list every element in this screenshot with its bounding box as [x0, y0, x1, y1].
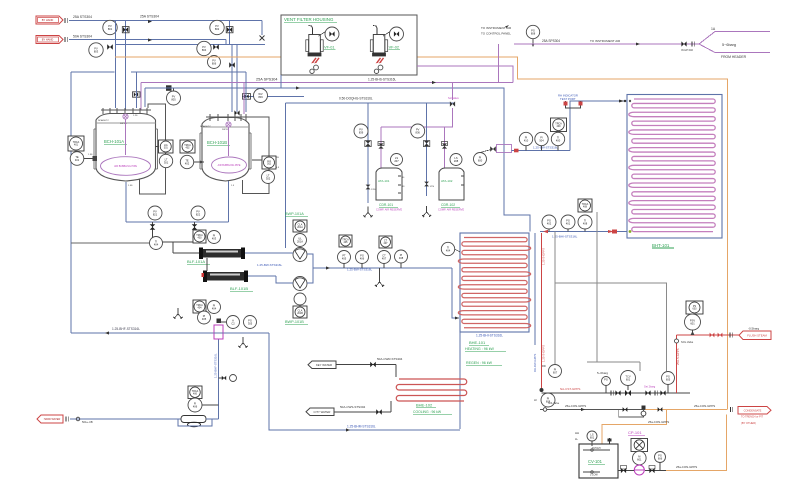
condensate header [540, 409, 645, 411]
svg-text:BLF-101B: BLF-101B [230, 286, 248, 291]
pump BWP-101B [293, 277, 307, 291]
column x115.5 to vessel A [115, 21, 117, 109]
svg-text:601: 601 [637, 458, 642, 462]
instrument TE402 [180, 155, 193, 168]
svg-text:TO CONTROL PANEL: TO CONTROL PANEL [481, 32, 511, 36]
instrument PI600 [474, 153, 487, 166]
svg-text:404: 404 [446, 249, 451, 253]
pump suction lines [245, 252, 293, 254]
svg-text:1S: 1S [402, 186, 405, 188]
svg-text:801: 801 [108, 27, 113, 31]
vessel drains blue [125, 182, 127, 222]
riser x570 to BHT inlet [570, 101, 627, 151]
BHT outlet line to BHE header [540, 231, 627, 233]
svg-text:NOAGUTC: NOAGUTC [200, 125, 211, 128]
svg-text:0.50-DOQHG-STS316L: 0.50-DOQHG-STS316L [339, 97, 373, 101]
drum drains Y [367, 207, 369, 213]
svg-text:AIR BUBBLING PIPE: AIR BUBBLING PIPE [218, 164, 241, 167]
branch to CV tank [602, 410, 667, 445]
vent filter VF-02 [373, 35, 385, 56]
BHE header instruments [578, 199, 592, 212]
svg-text:401: 401 [74, 144, 79, 147]
svg-text:601: 601 [626, 378, 631, 382]
instrument PV804 [197, 41, 211, 55]
instrument PV836 [411, 124, 425, 138]
loop header y333 [71, 332, 214, 334]
svg-text:CDR-101: CDR-101 [379, 203, 393, 207]
svg-text:LL: LL [575, 437, 579, 441]
svg-text:402: 402 [186, 147, 191, 150]
vessel BCH-101B [202, 118, 249, 182]
instrument PI607 [549, 365, 562, 378]
svg-text:405: 405 [342, 257, 347, 261]
instrument PG808 [526, 25, 539, 38]
svg-text:KEY WATER: KEY WATER [316, 363, 332, 367]
svg-text:Set 2barg: Set 2barg [644, 385, 656, 389]
BHE-101 inlet TI [441, 242, 454, 255]
svg-text:208: 208 [454, 159, 459, 163]
svg-text:ATA-101: ATA-101 [378, 179, 390, 183]
svg-text:410: 410 [524, 139, 529, 143]
svg-text:BHE-102: BHE-102 [416, 403, 433, 408]
condensate bypass loop [619, 410, 644, 418]
svg-text:1.5S: 1.5S [128, 185, 133, 187]
pump discharge orange [666, 415, 727, 471]
svg-text:VENT FILTER HOUSING: VENT FILTER HOUSING [284, 17, 334, 22]
instrument TRCA403 square [193, 230, 206, 243]
svg-text:1/2S: 1/2S [430, 186, 435, 188]
svg-text:5~6barg: 5~6barg [597, 371, 608, 375]
svg-text:601: 601 [590, 436, 595, 440]
svg-text:201A: 201A [297, 226, 303, 229]
steam line red x541.5 [541, 233, 543, 388]
svg-text:SOL.Valve: SOL.Valve [681, 340, 694, 344]
instrument FI406 [188, 398, 202, 412]
svg-text:CDR-102: CDR-102 [441, 203, 455, 207]
instrument PG406 [356, 251, 369, 264]
vent Y at y333 [242, 337, 244, 343]
instrument TRCA401 square [68, 136, 84, 151]
svg-text:ATA-102: ATA-102 [441, 179, 453, 183]
PRV station components [610, 391, 612, 396]
instrument PI403 [208, 231, 221, 244]
svg-text:PG: PG [604, 377, 608, 381]
svg-text:25A SPS304: 25A SPS304 [542, 39, 560, 43]
pump CP-101 motor [633, 451, 647, 465]
svg-text:1/2S: 1/2S [371, 189, 376, 191]
filter BLF-101B [206, 272, 244, 281]
svg-text:25A SPS304: 25A SPS304 [256, 78, 278, 82]
instrument PG606 [655, 452, 666, 463]
wire blue header y20.5 [69, 20, 262, 22]
wire drops vessel B [231, 45, 233, 113]
svg-text:1.25-BHI-STS316L: 1.25-BHI-STS316L [476, 334, 503, 338]
purple drop vessel A [140, 83, 142, 111]
BHE-101 downcomer to city loop [459, 332, 461, 429]
svg-text:10: 10 [402, 177, 405, 179]
svg-text:SOL.Valve: SOL.Valve [548, 402, 560, 405]
instrument PV803 [89, 43, 103, 57]
svg-text:VF-02: VF-02 [389, 46, 399, 50]
svg-text:COOLING : 96 kW: COOLING : 96 kW [413, 410, 442, 414]
svg-text:1.25-BHF-STS316L: 1.25-BHF-STS316L [214, 353, 218, 378]
svg-text:IN HP 040: IN HP 040 [681, 48, 693, 52]
svg-text:1.5: 1.5 [231, 185, 235, 187]
valve column x125.6 [125, 21, 127, 111]
vent box drain drop [280, 75, 282, 88]
svg-text:839: 839 [359, 131, 364, 135]
static mixer [181, 416, 206, 423]
flash steam line [677, 334, 740, 336]
svg-text:1.25-S-GPPS: 1.25-S-GPPS [542, 345, 546, 362]
svg-text:201A: 201A [297, 240, 303, 244]
svg-text:1.25-BW-STS316L: 1.25-BW-STS316L [347, 268, 372, 272]
svg-text:406: 406 [193, 405, 198, 409]
svg-text:COMP. AIR RESERVE: COMP. AIR RESERVE [376, 208, 402, 212]
instrument LT302 [262, 171, 275, 184]
svg-text:408: 408 [583, 206, 588, 209]
gray line from BHE to PRV station [554, 232, 556, 365]
line y150.5 to BHT riser [512, 150, 571, 152]
svg-text:1.2S: 1.2S [133, 115, 138, 117]
instrument LT301 [159, 154, 172, 167]
svg-text:BY HAND: BY HAND [42, 38, 54, 42]
svg-text:L-LOW: L-LOW [590, 474, 598, 477]
svg-text:305: 305 [248, 322, 253, 326]
svg-text:(BY OTHER): (BY OTHER) [741, 421, 756, 425]
svg-text:NA-CST-GPPS: NA-CST-GPPS [560, 387, 580, 391]
break symbol [64, 18, 66, 23]
instrument PI504 [535, 132, 548, 145]
svg-text:50A-CWR-STS304: 50A-CWR-STS304 [377, 357, 403, 361]
svg-text:1.25-BHI-STS316L: 1.25-BHI-STS316L [552, 235, 578, 239]
svg-text:201B: 201B [297, 312, 303, 315]
svg-text:302: 302 [266, 177, 271, 181]
svg-text:504: 504 [539, 139, 544, 143]
drop x246 vessel B right [245, 72, 247, 112]
instrument TRCA400 square [551, 118, 567, 132]
svg-text:600: 600 [478, 159, 483, 163]
purple header drop to drums [452, 83, 454, 101]
city loop bottom return [218, 339, 220, 419]
svg-text:25a-CON-GPPS: 25a-CON-GPPS [565, 404, 586, 408]
blue down x504 with purple valve [497, 145, 512, 153]
svg-text:COMP. AIR RESERVE: COMP. AIR RESERVE [438, 208, 464, 212]
pump BWP-101A [293, 248, 307, 262]
svg-text:-0.5barg: -0.5barg [748, 327, 760, 331]
svg-text:BCH-101A: BCH-101A [104, 139, 124, 144]
right side collector x535 [534, 233, 536, 345]
svg-text:821: 821 [153, 213, 158, 217]
heat exchanger BHE-101 shell [460, 233, 529, 332]
svg-text:301: 301 [164, 147, 169, 150]
instrument CT407 [378, 251, 391, 264]
instrument PV822 [191, 206, 205, 220]
svg-text:26P1S: 26P1S [120, 123, 127, 125]
pump A instruments [293, 220, 307, 232]
purple dip tube A [123, 114, 128, 119]
svg-text:601: 601 [690, 322, 695, 326]
svg-text:TEST PORT: TEST PORT [560, 97, 576, 101]
vent Y on water line [379, 268, 381, 276]
svg-text:806: 806 [212, 62, 217, 66]
svg-text:BHE-101: BHE-101 [469, 340, 486, 345]
instrument LS207 [391, 154, 403, 166]
svg-text:1.5: 1.5 [276, 167, 280, 169]
instrument LS208 [450, 154, 462, 166]
control valve TCV [621, 371, 636, 386]
instrument TI400 [551, 132, 564, 145]
blue header y103 DOQHG [285, 102, 455, 104]
valve on drop x237 [234, 110, 239, 115]
vent line vessel A with PV805 [133, 92, 141, 97]
svg-text:25a-CON-GPPS: 25a-CON-GPPS [694, 404, 715, 408]
filter BLF-101A [202, 249, 242, 258]
svg-text:25a-CON-GPPS: 25a-CON-GPPS [648, 420, 669, 424]
svg-text:VF-01: VF-01 [324, 46, 334, 50]
instrument PI405 cluster at junction [198, 311, 211, 324]
svg-text:607: 607 [553, 371, 558, 375]
vent filter VF-01 [309, 35, 321, 56]
svg-text:HI: HI [534, 398, 537, 402]
instrument PV839 [354, 124, 368, 138]
city water line [334, 411, 391, 413]
svg-text:50A-CWS-STS304: 50A-CWS-STS304 [340, 405, 366, 409]
vent line vessel B with WV809 [242, 95, 304, 97]
svg-text:26P1S: 26P1S [222, 129, 229, 131]
instrument PV801 [103, 20, 117, 34]
vent Y below filters [177, 308, 179, 314]
svg-text:1.25-BW-STS316L: 1.25-BW-STS316L [257, 263, 282, 267]
svg-text:406: 406 [360, 257, 365, 261]
svg-text:401: 401 [75, 158, 80, 162]
svg-text:822: 822 [196, 213, 201, 217]
blue riser x145 vessel vent [144, 88, 146, 107]
svg-text:808: 808 [531, 32, 536, 36]
hard water line [65, 417, 67, 422]
safety valve PSV [686, 301, 703, 314]
sample valve [219, 377, 227, 379]
BHT-101 coil [629, 99, 715, 232]
svg-text:803: 803 [94, 50, 99, 54]
instrument PI404 [208, 301, 221, 314]
svg-text:50A+-UB: 50A+-UB [82, 420, 93, 424]
svg-text:404: 404 [154, 243, 159, 247]
instrument TRCA404 square below [193, 300, 206, 313]
svg-text:25A STS304: 25A STS304 [140, 15, 159, 19]
svg-text:804: 804 [202, 48, 207, 52]
svg-text:HARD WATER: HARD WATER [44, 418, 61, 421]
instrument TE401 [70, 152, 84, 166]
svg-text:BWP-101A: BWP-101A [285, 212, 304, 216]
svg-text:403: 403 [212, 237, 217, 241]
svg-text:BLF-101A: BLF-101A [187, 259, 205, 264]
instrument air drop x498.5 [498, 44, 500, 83]
svg-text:1.25-BHM-STS316L: 1.25-BHM-STS316L [347, 425, 376, 429]
drain legs with valves [152, 222, 154, 242]
svg-text:302: 302 [267, 163, 272, 166]
from header flag 1A [699, 32, 715, 53]
purple air header y82.5 [141, 82, 513, 84]
flag FLUSH STEAM [739, 331, 771, 340]
svg-text:TO INSTRUMENT AIR: TO INSTRUMENT AIR [590, 39, 621, 43]
wire drop to closed end x262 [261, 21, 263, 36]
pipe flag inlet 50A [36, 36, 63, 44]
vessel A top nozzles [102, 108, 104, 114]
svg-text:TO TRENCH or PIT: TO TRENCH or PIT [741, 416, 763, 419]
svg-text:603: 603 [693, 308, 698, 311]
svg-text:C2: C2 [231, 322, 235, 326]
purple riser from vent box [417, 66, 513, 83]
svg-text:605: 605 [666, 378, 671, 382]
svg-text:408: 408 [583, 222, 588, 226]
svg-text:836: 836 [416, 131, 421, 135]
svg-text:401: 401 [566, 222, 571, 226]
svg-text:404: 404 [212, 307, 217, 311]
blue line y88 [145, 88, 530, 232]
svg-text:404: 404 [198, 307, 203, 310]
svg-text:1.25-BHS-STS316L: 1.25-BHS-STS316L [368, 78, 396, 82]
vessel A side loop black [140, 104, 166, 194]
instrument PV806 [208, 56, 221, 69]
svg-text:2B: 2B [276, 157, 279, 159]
filter interconnect [206, 258, 208, 271]
svg-text:606: 606 [658, 457, 663, 461]
svg-text:25A STS304: 25A STS304 [73, 15, 92, 19]
long vertical x285 [284, 103, 286, 248]
heat exchanger BHE-102 coil [396, 379, 467, 401]
svg-text:RD: RD [542, 364, 546, 368]
svg-text:BCH-101B: BCH-101B [207, 140, 227, 145]
svg-text:402: 402 [547, 222, 552, 226]
pipe flag inlet 25A top-left [36, 16, 63, 24]
flag KEY WATER [308, 361, 336, 369]
svg-text:407: 407 [384, 242, 389, 245]
svg-text:AIR BUBBLING PIPE: AIR BUBBLING PIPE [114, 165, 137, 168]
instrument LIA301 square [159, 140, 174, 153]
instrument CT407 square [379, 236, 392, 248]
instrument TRCA402 square [180, 140, 195, 153]
svg-text:25A-S-GPPS: 25A-S-GPPS [676, 348, 680, 365]
pump CP-101 motor fan [631, 439, 648, 452]
svg-text:HEATING : 96 kW: HEATING : 96 kW [465, 347, 494, 351]
svg-text:CV-101: CV-101 [588, 459, 603, 464]
key water line [336, 364, 396, 366]
svg-text:403: 403 [198, 237, 203, 240]
pump CP-101 [634, 465, 644, 475]
svg-text:FROM HEADER: FROM HEADER [721, 55, 747, 59]
wire blue header y39.5 [69, 39, 226, 41]
svg-text:CP-101: CP-101 [628, 430, 642, 435]
valve riser x229.5 [229, 21, 231, 45]
pump B instruments [294, 293, 306, 305]
BHE-101 coil [458, 238, 530, 328]
instrument LIA302 square [262, 156, 276, 169]
tank top stub valve [609, 438, 611, 444]
svg-text:405: 405 [202, 317, 207, 321]
svg-text:BY HAND: BY HAND [42, 18, 54, 22]
purple drops to drums [380, 127, 382, 168]
steam trap on red line [540, 388, 544, 392]
svg-text:1.25-S-GPPS: 1.25-S-GPPS [542, 248, 546, 265]
svg-text:Sol.Valve: Sol.Valve [448, 96, 459, 100]
instrument PI410 [519, 132, 532, 145]
left blue loop [71, 71, 115, 73]
drum CDR-101A [376, 168, 402, 200]
break symbol [64, 37, 66, 42]
instrument PG605 [662, 372, 675, 385]
drum CDR-101B [439, 168, 464, 200]
wire branch header y44.5 [116, 44, 266, 46]
tank CV-101 [579, 444, 618, 478]
pump suction discharge [618, 470, 634, 472]
svg-text:50A STS304: 50A STS304 [73, 35, 92, 39]
svg-text:1.25-BW-STS316L: 1.25-BW-STS316L [533, 146, 558, 150]
blue drops to drums [367, 103, 369, 203]
svg-text:802: 802 [215, 27, 220, 31]
svg-text:CITY WATER: CITY WATER [314, 410, 331, 414]
hard water inlet flag [37, 415, 63, 423]
svg-text:REGEN : 96 kW: REGEN : 96 kW [466, 361, 493, 365]
svg-text:NOAGUTC: NOAGUTC [98, 119, 109, 122]
svg-text:FLUSH STEAM: FLUSH STEAM [747, 333, 767, 337]
svg-text:408: 408 [399, 256, 404, 260]
purple dip tube B [226, 122, 231, 127]
instrument TRCA406 square [188, 386, 202, 399]
vessel B top nozzles [209, 114, 211, 121]
instrument PV821 [148, 206, 162, 220]
solenoid valve [450, 101, 455, 106]
svg-text:400: 400 [557, 125, 562, 128]
svg-text:805: 805 [171, 98, 176, 102]
svg-text:HH: HH [575, 431, 579, 435]
svg-text:301: 301 [164, 161, 169, 165]
svg-text:405: 405 [344, 241, 349, 244]
flag CITY WATER [306, 408, 334, 416]
vessel B side loop black [243, 117, 270, 194]
valve x110 [107, 44, 113, 50]
svg-text:CONDENSATE: CONDENSATE [744, 408, 762, 412]
svg-text:BHT-101: BHT-101 [652, 243, 670, 248]
svg-text:400: 400 [556, 139, 561, 143]
instrument PI608 [541, 393, 555, 407]
svg-text:207: 207 [394, 159, 399, 163]
vessel BCH-101A [96, 114, 156, 182]
instrument air header purple [514, 43, 699, 45]
svg-text:809: 809 [258, 95, 263, 99]
svg-text:25a-CON-GPPS: 25a-CON-GPPS [676, 465, 697, 469]
instrument TRCA405 square [339, 235, 352, 247]
svg-text:407: 407 [382, 257, 387, 261]
svg-text:1.5S: 1.5S [88, 154, 93, 156]
water supply line y268 [307, 254, 313, 268]
condensate break and flag [729, 407, 731, 412]
orange condensate header top [115, 56, 281, 58]
filter F purple box [214, 325, 223, 339]
svg-text:5~6barg: 5~6barg [722, 43, 736, 47]
traps on condensate [623, 407, 628, 412]
svg-text:406: 406 [193, 392, 198, 395]
instrument PT405 [338, 251, 351, 264]
svg-text:402: 402 [185, 162, 190, 166]
PRV station line [542, 392, 599, 394]
instrument PV802 [210, 20, 224, 34]
instrument PI408 [395, 250, 408, 263]
instrument TI404 left [71, 242, 150, 244]
purple drop vessel B [243, 83, 245, 115]
svg-text:1.25-BHF-STS316L: 1.25-BHF-STS316L [112, 327, 140, 331]
heat exchanger BHT-101 frame [627, 95, 722, 239]
